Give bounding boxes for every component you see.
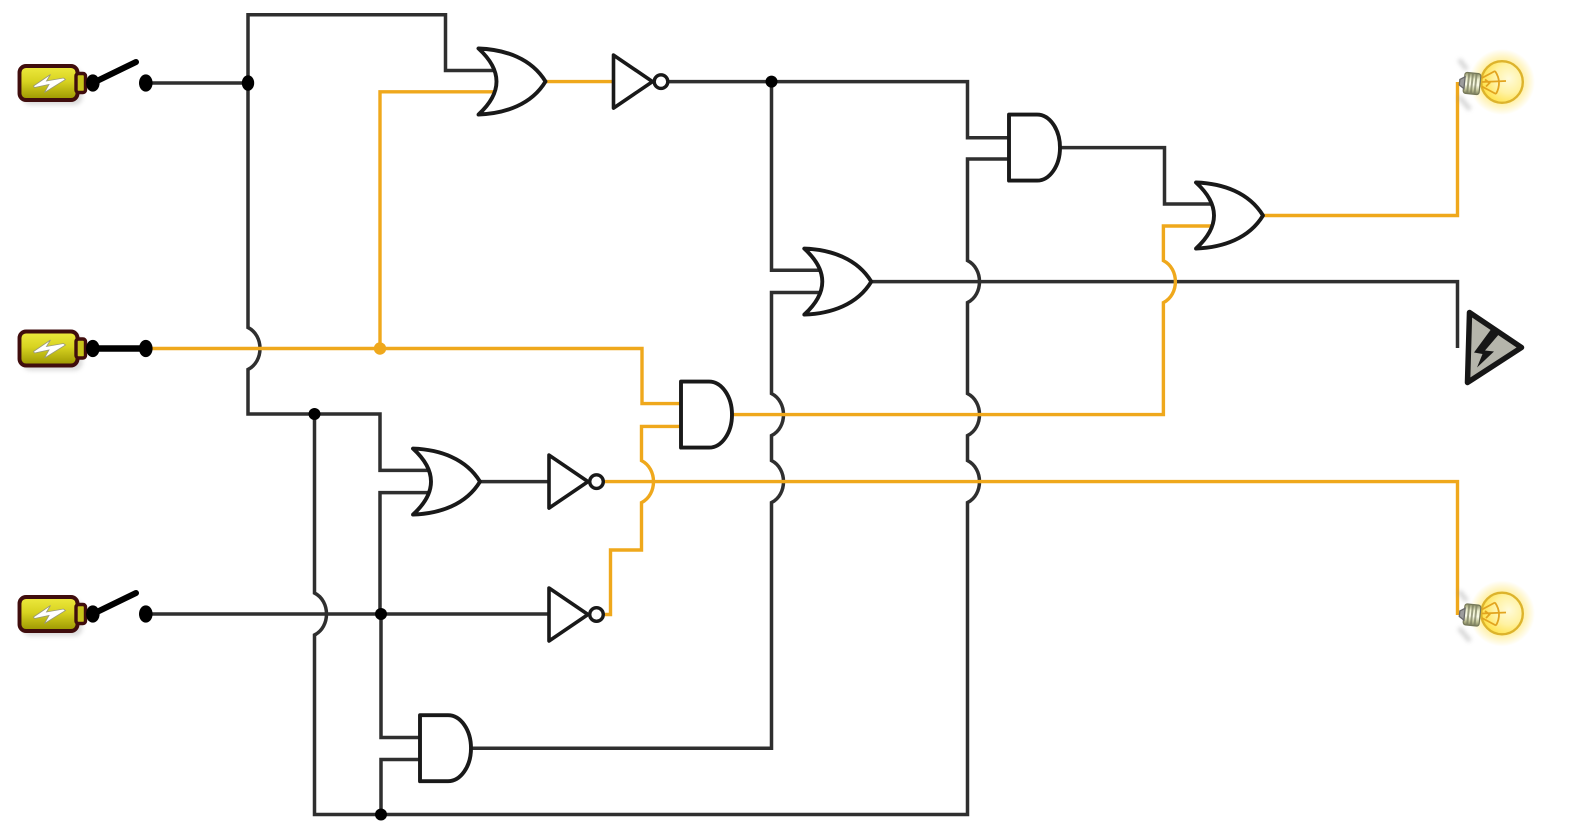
- node J2: [309, 408, 321, 420]
- wire AND3 output to OR3 top input: [1060, 148, 1222, 204]
- wire OR3 output to bulb L1 (active): [1262, 82, 1458, 216]
- switch lever B3 open: [93, 593, 136, 614]
- and-gate AND1: [681, 382, 732, 448]
- wire AND2 output up with hops to OR2 bottom input: [471, 293, 832, 749]
- or-gate OR1: [479, 49, 546, 115]
- node J6: [766, 76, 778, 88]
- switch lever B2 closed: [93, 345, 146, 352]
- switch lever B1 open: [93, 62, 136, 83]
- wire NOT1 output to bulb L2 (active): [604, 482, 1458, 615]
- light bulb L1: [1458, 49, 1535, 115]
- wire net C: battery B3 to NOT2 input: [146, 612, 563, 616]
- wire NOT2 output jog up with hop to AND1 bottom input (active): [605, 426, 691, 614]
- battery B2: [20, 332, 153, 371]
- wire net A: battery B1 switch to junction J1: [146, 81, 248, 85]
- wire net C: junction J5 up to OR4 bottom input: [380, 493, 440, 614]
- and-gate AND2: [420, 715, 471, 781]
- wire net A: junction J1 down with hop over net B, corner to OR4 top input: [248, 83, 440, 470]
- or-gate OR4: [413, 449, 480, 515]
- terminal dot B1a: [86, 74, 100, 91]
- not-gate NOT3: [614, 55, 668, 108]
- terminal dot B2a: [86, 340, 100, 357]
- wire AND1 output up with hop to OR3 bottom input (active): [732, 226, 1222, 415]
- not-gate NOT2: [549, 588, 603, 641]
- wire net B: battery B2 to AND1 top input (active): [146, 349, 691, 404]
- node J1: [242, 75, 254, 91]
- terminal dot B2b: [139, 340, 153, 357]
- node J3: [375, 809, 387, 821]
- wire net A: junction J2 down bottom rail with hops, up to AND3 bottom input: [315, 159, 1020, 815]
- terminal dot B1b: [139, 74, 153, 91]
- and-gate AND3: [1009, 115, 1060, 181]
- wire net C: junction J5 down to AND2 top input: [381, 614, 430, 738]
- light bulb L2: [1458, 581, 1535, 647]
- node J4: [374, 342, 386, 354]
- terminal dot B3b: [139, 605, 153, 622]
- battery B1: [20, 62, 153, 105]
- wire net B: junction J4 up to OR1 bottom input (active): [380, 92, 505, 349]
- wire OR4 output to NOT1 input: [479, 480, 563, 484]
- wire net A: bottom rail stub up to AND2 bottom input: [381, 760, 430, 815]
- wire OR2 output to warning indicator W1: [870, 282, 1458, 348]
- wire NOT1t output to AND3 top input: [669, 82, 1019, 138]
- terminal dot B3a: [86, 605, 100, 622]
- warning indicator W1: [1468, 313, 1522, 383]
- wire junction J6 down to OR2 top input: [772, 82, 833, 271]
- not-gate NOT1: [549, 455, 603, 508]
- wire net A: junction J1 up over top to OR1 top input: [248, 15, 505, 83]
- or-gate OR3: [1196, 183, 1263, 249]
- node J5: [375, 608, 387, 620]
- battery B3: [20, 593, 153, 636]
- or-gate OR2: [804, 249, 871, 315]
- wire OR1 output to NOT1t input (active): [544, 80, 628, 83]
